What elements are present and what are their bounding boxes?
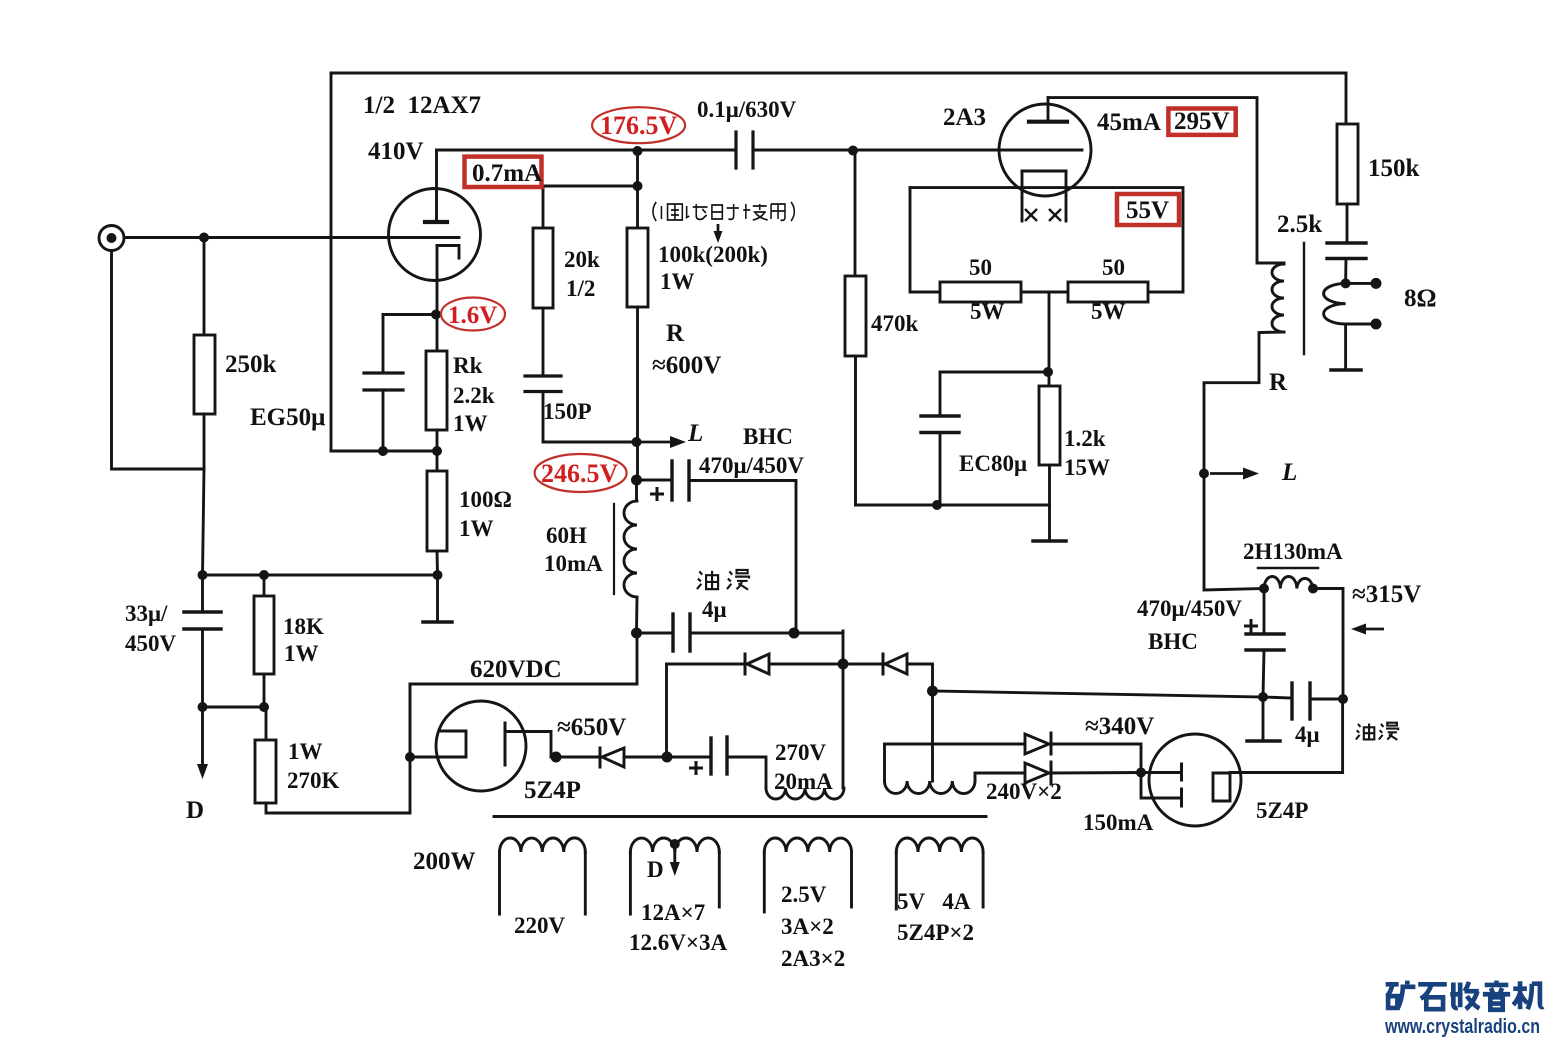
node 20k/100k junction: [633, 181, 643, 191]
chassis rail: [494, 815, 986, 818]
svg-text:BHC: BHC: [1148, 629, 1198, 654]
svg-text:2.5V: 2.5V: [781, 882, 827, 907]
svg-text:20k: 20k: [564, 247, 600, 272]
svg-text:470μ/450V: 470μ/450V: [1137, 596, 1242, 621]
wire diode row y664: [667, 663, 746, 666]
wire grid bottom return: [331, 450, 437, 453]
resistor R 100k(200k) 1W: [627, 228, 648, 307]
ground under 4u: [1262, 697, 1265, 741]
capacitor output 2.5k top: [1327, 241, 1366, 244]
svg-text:EC80μ: EC80μ: [959, 451, 1027, 476]
node 2H choke right junction: [1308, 584, 1318, 594]
resistor 100ohm 1W: [436, 451, 439, 471]
arrow L left: [640, 441, 676, 444]
svg-text:2A3×2: 2A3×2: [781, 946, 845, 971]
node speaker terminal top: [1371, 278, 1382, 289]
node 2A3 cathode bias junction: [1043, 367, 1053, 377]
wire D output arrow: [201, 707, 204, 770]
svg-text:18K: 18K: [283, 614, 324, 639]
wire 2A3 plate top: [1048, 98, 1257, 263]
svg-text:5Z4P: 5Z4P: [1256, 798, 1308, 823]
svg-text:12.6V×3A: 12.6V×3A: [629, 930, 727, 955]
watermark crystalradio: [1384, 981, 1543, 1038]
svg-text:1W: 1W: [284, 641, 319, 666]
tube U3 5Z4P left: [436, 701, 526, 791]
svg-text:2A3: 2A3: [943, 104, 986, 131]
svg-text:R: R: [1269, 369, 1288, 396]
resistor 50 5W right: [1068, 282, 1148, 302]
svg-text:270V: 270V: [775, 740, 827, 765]
tube U2 2A3: [999, 104, 1091, 196]
CJK placeholder group: [653, 202, 1398, 740]
svg-text:150P: 150P: [543, 399, 592, 424]
svg-text:D: D: [186, 797, 204, 824]
node 270K top junction: [259, 702, 269, 712]
node L right junction: [1199, 469, 1209, 479]
annotation ellipse 176.5V: [592, 107, 685, 143]
wire y707: [203, 706, 265, 709]
svg-text:1W: 1W: [288, 739, 323, 764]
transformer T2 secondary: [1324, 283, 1346, 324]
node 18K top junction: [259, 570, 269, 580]
transformer T1 240V winding: [883, 744, 886, 781]
tube U4 5Z4P right: [1149, 734, 1241, 826]
svg-text:0.1μ/630V: 0.1μ/630V: [697, 97, 797, 122]
node 650V cap junction: [662, 752, 673, 763]
inductor 270V 20mA winding: [766, 788, 844, 799]
node 2H choke left junction: [1259, 584, 1269, 594]
wire cathode bias: [1048, 292, 1051, 386]
resistor 18K 1W: [263, 575, 266, 596]
node input jack J1: [99, 226, 124, 251]
transformer T1 2.5V winding: [764, 838, 851, 852]
wire y575 rail: [203, 574, 439, 577]
resistor 150k: [1345, 73, 1348, 124]
node heater center tap: [670, 839, 680, 849]
annotation ellipse 1.6V: [441, 298, 505, 331]
note text (调试时接用): [653, 202, 794, 221]
capacitor 150P: [525, 374, 561, 377]
red annotations: [441, 107, 1236, 492]
label oil immersed left: [697, 570, 749, 590]
node 176.5V anode junction: [633, 146, 643, 156]
svg-text:100k(200k): 100k(200k): [658, 242, 768, 267]
transformer T2 primary: [1257, 262, 1284, 265]
node rectifier output junction: [927, 686, 938, 697]
resistor 470k: [854, 150, 857, 276]
wire jack ground loop: [112, 251, 205, 470]
wire down to diode row: [842, 631, 845, 788]
svg-text:≈315V: ≈315V: [1352, 581, 1421, 608]
svg-text:3A×2: 3A×2: [781, 914, 834, 939]
capacitor C7 plus 650V: [667, 756, 710, 759]
wire 250k branch: [203, 238, 206, 336]
svg-text:150k: 150k: [1368, 155, 1420, 182]
svg-text:R: R: [666, 320, 685, 347]
node 246.5V junction: [631, 475, 642, 486]
capacitor C2 0.1u/630V: [734, 132, 737, 168]
svg-text:L: L: [687, 420, 703, 447]
node speaker terminal bottom: [1371, 319, 1382, 330]
svg-text:150mA: 150mA: [1083, 810, 1154, 835]
wire y505: [856, 504, 1050, 507]
wire rectified row y691: [933, 691, 1264, 697]
node 4u right-cap east junction: [1338, 694, 1348, 704]
svg-text:Rk: Rk: [453, 353, 483, 378]
svg-text:≈340V: ≈340V: [1085, 713, 1154, 740]
svg-text:1W: 1W: [453, 411, 488, 436]
arrow 315V left: [1356, 628, 1384, 631]
svg-text:≈600V: ≈600V: [652, 352, 721, 379]
node Rk return junction: [432, 446, 442, 456]
svg-text:15W: 15W: [1064, 455, 1110, 480]
svg-text:250k: 250k: [225, 351, 277, 378]
wire 20k/100k branch: [636, 150, 639, 228]
annotation box 55V: [1117, 194, 1179, 225]
diode D650: [599, 748, 602, 767]
arrow D down: [197, 764, 208, 779]
tube U1 12AX7: [389, 189, 481, 281]
wire 650V branch left leg: [665, 664, 668, 757]
capacitor EG50u: [383, 313, 436, 316]
svg-text:1.6V: 1.6V: [448, 302, 497, 329]
node 5Z4P cathode junction: [551, 752, 562, 763]
arrow L right: [1210, 472, 1248, 475]
svg-text:410V: 410V: [368, 138, 424, 165]
svg-text:2H130mA: 2H130mA: [1243, 539, 1343, 564]
wire input to grid: [124, 236, 459, 239]
svg-text:240V×2: 240V×2: [986, 779, 1062, 804]
svg-text:220V: 220V: [514, 913, 566, 938]
capacitor 33u/450V: [201, 575, 204, 612]
node EG50u return junction: [378, 446, 388, 456]
svg-text:1W: 1W: [660, 269, 695, 294]
resistor 50 5W left: [940, 282, 1021, 302]
svg-text:270K: 270K: [287, 768, 340, 793]
ground under 1.2k: [1048, 505, 1051, 541]
node diode row junction: [838, 659, 849, 670]
svg-text:295V: 295V: [1174, 108, 1230, 135]
arrows: [197, 224, 1384, 876]
svg-text:BHC: BHC: [743, 424, 793, 449]
node 4u right-cap west junction: [1258, 692, 1268, 702]
resistor Rk 2.2k 1W: [436, 315, 439, 352]
annotation box 295V: [1168, 109, 1235, 135]
diode D4: [1025, 763, 1049, 783]
node 1.6V cathode junction: [431, 310, 441, 320]
svg-text:45mA: 45mA: [1097, 109, 1161, 136]
svg-text:246.5V: 246.5V: [541, 459, 619, 488]
node 5Z4P right input junction: [1136, 768, 1146, 778]
svg-text:50: 50: [1102, 255, 1125, 280]
resistor 250k: [194, 335, 215, 414]
node L tap junction: [632, 437, 642, 447]
svg-text:450V: 450V: [125, 631, 177, 656]
inductor 60H 10mA choke: [635, 480, 638, 501]
node 100ohm ground junction: [433, 570, 443, 580]
wire 620VDC loop: [410, 633, 637, 757]
svg-text:≈650V: ≈650V: [557, 714, 626, 741]
annotation box 0.7mA: [465, 157, 542, 187]
transformer T1 5V winding: [896, 838, 983, 852]
node 4u left junction: [631, 628, 642, 639]
svg-text:1.2k: 1.2k: [1064, 426, 1106, 451]
transformer T1 12.6V heater winding: [630, 838, 719, 852]
diode D3: [1025, 734, 1049, 754]
svg-text:L: L: [1281, 459, 1297, 486]
arrow D tap down: [670, 862, 680, 876]
wire top rail: [331, 72, 1346, 75]
svg-text:5W: 5W: [970, 299, 1005, 324]
svg-text:2.2k: 2.2k: [453, 383, 495, 408]
svg-text:1W: 1W: [459, 516, 494, 541]
svg-text:1/2: 1/2: [566, 276, 595, 301]
node grid input junction: [199, 233, 209, 243]
label oil immersed right: [1356, 723, 1398, 740]
svg-text:0.7mA: 0.7mA: [472, 160, 542, 187]
svg-text:100Ω: 100Ω: [459, 487, 512, 512]
node 33u top junction: [198, 570, 208, 580]
svg-text:176.5V: 176.5V: [600, 111, 678, 140]
annotation ellipse 246.5V: [535, 454, 627, 492]
svg-text:10mA: 10mA: [544, 551, 603, 576]
svg-text:5Z4P×2: 5Z4P×2: [897, 920, 974, 945]
arrow note down: [717, 224, 720, 236]
node 0.1u output / 2A3 grid junction: [848, 146, 858, 156]
svg-text:50: 50: [969, 255, 992, 280]
svg-text:620VDC: 620VDC: [470, 656, 562, 683]
svg-text:20mA: 20mA: [774, 769, 833, 794]
svg-text:D: D: [647, 857, 664, 882]
svg-text:5V 4A: 5V 4A: [897, 889, 971, 914]
svg-text:12A×7: 12A×7: [641, 900, 705, 925]
capacitor EC80u: [939, 372, 942, 416]
node EC80u bottom junction: [932, 500, 942, 510]
svg-text:33μ/: 33μ/: [125, 601, 168, 626]
svg-text:2.5k: 2.5k: [1277, 211, 1322, 238]
wire 55V loop: [910, 188, 1183, 292]
svg-text:5W: 5W: [1091, 299, 1126, 324]
capacitor 4u oil right: [1263, 697, 1291, 698]
ground under speaker: [1344, 324, 1347, 370]
resistor 1.2k 15W: [1039, 386, 1060, 465]
node D divider junction: [198, 702, 208, 712]
capacitor BHC right 470u/450V: [1263, 589, 1266, 635]
svg-text:EG50μ: EG50μ: [250, 404, 325, 431]
inductor 2H130mA choke: [1264, 577, 1313, 589]
svg-text:4μ: 4μ: [1295, 722, 1320, 747]
svg-text:470k: 470k: [871, 311, 919, 336]
wire anode rail y150: [437, 149, 737, 152]
capacitor polarity plus signs: [650, 487, 1258, 775]
svg-text:5Z4P: 5Z4P: [524, 777, 581, 804]
node 4u right junction: [789, 628, 800, 639]
capacitor C5 470u/450V BHC left: [637, 479, 672, 482]
diode D1: [744, 654, 747, 674]
svg-text:55V: 55V: [1126, 197, 1169, 224]
node secondary top junction: [1341, 278, 1351, 288]
svg-text:1/2 12AX7: 1/2 12AX7: [363, 92, 481, 119]
wire 340V top: [885, 743, 1026, 746]
svg-text:www.crystalradio.cn: www.crystalradio.cn: [1384, 1016, 1540, 1038]
svg-text:8Ω: 8Ω: [1404, 285, 1437, 312]
svg-text:470μ/450V: 470μ/450V: [699, 453, 804, 478]
ground under 100ohm: [436, 575, 439, 622]
diode D2: [882, 654, 885, 674]
svg-text:60H: 60H: [546, 523, 587, 548]
node 5Z4P anode junction: [405, 752, 415, 762]
capacitor C6 4u oil left: [637, 632, 673, 635]
svg-text:4μ: 4μ: [702, 597, 727, 622]
resistor 20k 1/2: [533, 228, 553, 308]
svg-text:200W: 200W: [413, 848, 476, 875]
tube U2 filament marks: [1025, 209, 1061, 221]
wire feedback left vertical: [330, 73, 333, 451]
transformer T1 220V primary: [500, 838, 586, 852]
resistor 270K 1W: [265, 707, 268, 740]
